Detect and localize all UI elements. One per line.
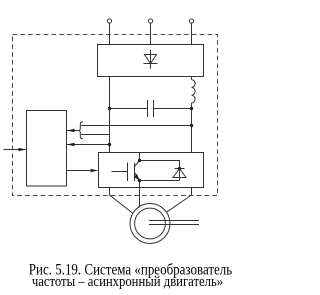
svg-text:частоты – асинхронный двигател: частоты – асинхронный двигатель» [32,274,223,290]
